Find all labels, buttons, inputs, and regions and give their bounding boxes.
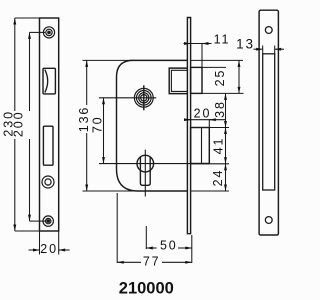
svg-text:13: 13 [236, 37, 255, 52]
svg-text:41: 41 [212, 137, 226, 155]
svg-text:200: 200 [12, 111, 26, 138]
svg-text:24: 24 [211, 169, 225, 187]
svg-text:77: 77 [143, 255, 161, 269]
svg-text:38: 38 [213, 100, 227, 118]
svg-text:136: 136 [77, 106, 91, 133]
svg-text:50: 50 [160, 239, 178, 253]
svg-text:11: 11 [214, 33, 231, 47]
svg-text:20: 20 [194, 107, 212, 121]
svg-text:25: 25 [213, 69, 227, 87]
svg-text:210000: 210000 [119, 280, 174, 298]
svg-text:70: 70 [90, 115, 104, 133]
svg-text:20: 20 [40, 242, 58, 256]
